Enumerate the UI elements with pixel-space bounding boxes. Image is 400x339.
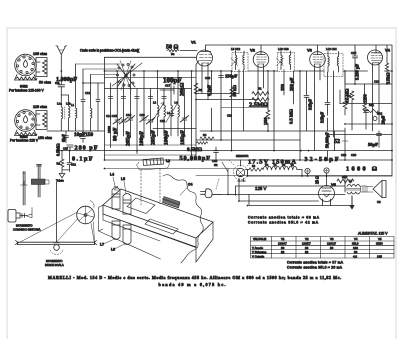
svg-text:V1: V1: [281, 237, 285, 241]
svg-text:0.5 MΩ: 0.5 MΩ: [289, 109, 294, 124]
left bracket: [99, 205, 161, 259]
resistor box 225/150 ohm: [36, 111, 47, 130]
svg-text:R4: R4: [203, 133, 207, 137]
svg-text:L6: L6: [111, 248, 115, 252]
svg-text:10μF150: 10μF150: [74, 132, 93, 138]
top rail: [206, 45, 393, 71]
main mid rails: [105, 57, 393, 160]
dashed guides down to chassis: [141, 169, 160, 205]
C4 component: [163, 197, 181, 209]
tuning section verticals: [105, 57, 192, 160]
svg-text:C4: C4: [188, 183, 192, 187]
svg-text:315pF: 315pF: [308, 98, 313, 110]
svg-text:C19: C19: [205, 76, 211, 80]
drum pulley: [77, 206, 95, 224]
IF transformer T1: [231, 47, 248, 72]
antenna: [56, 46, 67, 72]
svg-text:1000: 1000: [107, 126, 111, 133]
svg-text:banda 49 m a 6,075 kc.: banda 49 m a 6,075 kc.: [159, 282, 226, 287]
mid band vertical drops and rails: [202, 45, 392, 160]
svg-text:C22: C22: [341, 153, 347, 157]
dial cord drive: [16, 182, 97, 254]
vertical labels mid band: [205, 64, 391, 148]
svg-text:L5: L5: [121, 177, 125, 181]
svg-text:2.5MΩ: 2.5MΩ: [249, 102, 268, 109]
resistor box 165/50 ohm: [36, 58, 47, 77]
svg-text:VALVOLE: VALVOLE: [253, 237, 266, 241]
svg-text:0.1μF: 0.1μF: [207, 85, 212, 96]
resistor Rs 50ohm: [166, 44, 197, 56]
svg-text:L8: L8: [349, 179, 353, 183]
capacitor C11 1000pF: [55, 71, 65, 95]
svg-text:S2: S2: [214, 163, 218, 167]
tube V3: [307, 45, 325, 71]
svg-text:25 Ω: 25 Ω: [315, 175, 320, 184]
IF transformer T2: [277, 47, 295, 72]
svg-text:80: 80: [330, 246, 334, 250]
svg-text:REGISTR: REGISTR: [236, 154, 248, 158]
svg-text:80 pF: 80 pF: [112, 127, 118, 141]
svg-text:100pF: 100pF: [139, 130, 145, 146]
oscillator coils L2/L3: [153, 101, 180, 137]
small resistors vertical mid: [266, 91, 368, 130]
svg-text:V3: V3: [282, 163, 286, 167]
cords: [18, 212, 95, 243]
center hub: [54, 245, 60, 251]
svg-text:C16: C16: [374, 80, 380, 84]
svg-text:4,3: 4,3: [353, 254, 357, 258]
chassis top face: [103, 189, 213, 238]
resistor 2.5M: [249, 98, 269, 109]
mid rails horizontal: [62, 94, 392, 176]
cap 0.1uF: [67, 151, 93, 172]
svg-text:5.200 pF: 5.200 pF: [355, 64, 360, 80]
svg-text:L2: L2: [153, 101, 157, 105]
svg-text:50pF: 50pF: [368, 142, 378, 147]
svg-text:150 ohm: 150 ohm: [38, 136, 52, 140]
resistor R4: [200, 133, 214, 140]
svg-text:V4: V4: [354, 237, 358, 241]
svg-text:C15: C15: [112, 114, 118, 118]
svg-text:V3: V3: [307, 48, 313, 53]
ground under transformer: [350, 196, 354, 209]
svg-text:L7: L7: [100, 243, 104, 247]
svg-text:C13: C13: [63, 147, 68, 151]
tube V5 rectifier: [319, 177, 337, 206]
svg-text:V2: V2: [291, 163, 295, 167]
svg-text:COMANDO SINTONIA: COMANDO SINTONIA: [13, 228, 41, 232]
svg-text:2.5kΩ: 2.5kΩ: [386, 72, 391, 84]
svg-text:V5: V5: [378, 237, 382, 241]
svg-text:MOVIMENTO: MOVIMENTO: [46, 259, 63, 263]
chassis pictorial: [99, 158, 214, 263]
svg-text:225 ohm: 225 ohm: [33, 105, 47, 109]
torn outline: [163, 175, 203, 263]
svg-text:C19: C19: [140, 113, 146, 117]
svg-text:L4: L4: [110, 173, 114, 177]
svg-text:V Catodo: V Catodo: [252, 254, 264, 258]
svg-text:20μF: 20μF: [381, 115, 386, 125]
52 and 50pF labels: [334, 131, 382, 147]
svg-text:V2: V2: [250, 48, 256, 53]
valve table: [251, 237, 395, 259]
svg-text:0.5MΩ: 0.5MΩ: [187, 148, 202, 153]
svg-text:V3: V3: [330, 237, 334, 241]
tube V2: [250, 45, 269, 71]
svg-text:1000: 1000: [264, 117, 268, 125]
svg-text:C12: C12: [71, 163, 76, 167]
svg-text:L3: L3: [167, 111, 171, 115]
pilot lamp: [228, 154, 252, 180]
heater chain: [230, 160, 302, 201]
svg-text:Per tensione 125-160 V: Per tensione 125-160 V: [9, 89, 44, 93]
svg-text:C14: C14: [106, 114, 112, 118]
mains plug: [201, 169, 229, 198]
switch contact before lamp: [214, 162, 228, 172]
svg-text:65pF: 65pF: [62, 133, 66, 142]
tube socket pictorial 8464: [15, 110, 38, 136]
1600 ohm: [337, 166, 377, 184]
svg-text:1.000pF: 1.000pF: [56, 76, 77, 83]
svg-text:82: 82: [281, 250, 285, 254]
svg-text:L4: L4: [175, 101, 179, 105]
svg-text:Corrente anodica 35L6 ≈ 26 mA: Corrente anodica 35L6 ≈ 26 mA: [287, 265, 343, 269]
svg-text:V2: V2: [305, 237, 309, 241]
tube socket pictorial 6462: [15, 54, 38, 80]
svg-text:0.5MΩ: 0.5MΩ: [56, 143, 61, 156]
hanging cylinders below chassis: [112, 221, 120, 240]
svg-text:L5 C12: L5 C12: [231, 47, 240, 51]
L4 cylinder: [112, 188, 120, 210]
svg-text:L1a: L1a: [57, 102, 62, 106]
svg-text:V1: V1: [274, 163, 278, 167]
svg-text:Per tensione 220 V: Per tensione 220 V: [10, 138, 39, 142]
svg-text:R11: R11: [369, 103, 374, 107]
cap C13 280pF: [63, 145, 98, 152]
svg-text:C18: C18: [227, 114, 232, 118]
coil cluster x75-100: [71, 64, 100, 131]
tube V1: [191, 40, 213, 72]
svg-text:L12 C14: L12 C14: [326, 47, 337, 51]
svg-text:20kΩ: 20kΩ: [180, 82, 186, 96]
svg-text:MARELLI - Mod. 154 D - Medie e: MARELLI - Mod. 154 D - Medie e due corte…: [48, 275, 341, 280]
svg-text:U8: U8: [377, 200, 381, 204]
svg-text:100pF: 100pF: [164, 129, 170, 145]
svg-text:V4: V4: [385, 48, 391, 53]
padder capacitors row: [108, 97, 166, 99]
chassis front face: [103, 205, 196, 248]
svg-text:50,000pF: 50,000pF: [180, 155, 211, 162]
svg-text:V5: V5: [331, 182, 337, 187]
L5 cylinder: [123, 194, 131, 215]
svg-text:1250: 1250: [363, 93, 368, 103]
ground telaio: [56, 170, 70, 183]
svg-text:V4: V4: [265, 163, 269, 167]
svg-text:ALIMENTAZ. 125 V: ALIMENTAZ. 125 V: [358, 232, 388, 236]
tuning shaft mechanism: [21, 165, 50, 206]
100 pF big + 20k: [160, 77, 203, 97]
svg-text:C17: C17: [165, 84, 171, 88]
svg-text:82: 82: [305, 250, 309, 254]
small component labels row: [106, 111, 171, 123]
svg-text:R13: R13: [377, 112, 383, 116]
cap 65pF: [62, 131, 69, 143]
svg-text:Telaio: Telaio: [56, 179, 64, 183]
svg-text:R2: R2: [57, 162, 61, 166]
svg-text:125 V: 125 V: [255, 186, 267, 191]
svg-text:C12: C12: [85, 91, 91, 95]
svg-text:165 ohm: 165 ohm: [33, 52, 47, 56]
svg-text:Rs: Rs: [171, 52, 175, 56]
svg-text:150pF: 150pF: [225, 74, 237, 79]
0.5M vertical resistor R2: [56, 143, 64, 170]
svg-text:50 ohm: 50 ohm: [39, 81, 51, 85]
svg-text:C16: C16: [126, 113, 132, 117]
svg-text:285pF: 285pF: [151, 129, 157, 145]
svg-text:17.5V 150mA: 17.5V 150mA: [248, 159, 296, 166]
svg-text:MOVIMENTO: MOVIMENTO: [16, 224, 33, 228]
bottom right rails: [212, 160, 392, 206]
tube V4: [368, 45, 391, 71]
10uF150 electrolytic: [74, 131, 93, 142]
0.5M + 50000pF labels above chassis: [180, 142, 219, 163]
trimmer arrows over osc coils: [152, 101, 196, 129]
svg-text:L1: L1: [71, 103, 75, 107]
electrolytic caps 32-50uF: [305, 153, 357, 184]
variable capacitors (tuning gang): [113, 116, 189, 137]
svg-text:R1: R1: [258, 87, 262, 91]
speaker U8: [367, 181, 386, 205]
svg-text:250 pF: 250 pF: [289, 77, 294, 91]
svg-text:C15: C15: [351, 51, 357, 55]
left rails: [47, 64, 120, 151]
resistor R1 horizontal: [252, 87, 269, 96]
svg-text:265pF: 265pF: [126, 130, 132, 146]
left antenna coils L1: [57, 95, 71, 131]
bar: [18, 242, 95, 244]
svg-text:INDICE SCALA: INDICE SCALA: [45, 263, 64, 267]
svg-text:V1: V1: [191, 40, 197, 45]
svg-text:C21: C21: [160, 119, 166, 123]
band switch pictorial: [112, 61, 142, 91]
vertical value labels: [107, 126, 186, 146]
output transformer L8: [345, 179, 367, 194]
5MOhm resistor drop: [328, 131, 335, 160]
svg-text:125: 125: [377, 254, 382, 258]
svg-text:Corrente anodica totale ≈ 37 m: Corrente anodica totale ≈ 37 mA: [287, 261, 344, 265]
svg-text:Corrente anodica totale ≈ 68 m: Corrente anodica totale ≈ 68 mA: [248, 216, 320, 220]
svg-text:185pF: 185pF: [180, 129, 186, 145]
cutout on top: [127, 198, 155, 214]
svg-text:R4: R4: [347, 94, 351, 98]
L3 coil assembly: [143, 158, 164, 166]
svg-text:L10 C16: L10 C16: [278, 47, 289, 51]
svg-text:315pF: 315pF: [320, 111, 325, 123]
svg-text:35Z4: 35Z4: [376, 242, 383, 246]
IF transformer T3: [324, 47, 343, 77]
tuning knob: [8, 208, 32, 223]
svg-text:Onde corte in posizione-OC1-[o: Onde corte in posizione-OC1-[onda 41m](: [80, 49, 140, 53]
svg-text:150: 150: [280, 83, 285, 91]
right column rails: [328, 51, 393, 135]
svg-text:L3: L3: [166, 159, 170, 163]
svg-text:1600 Ω: 1600 Ω: [346, 166, 377, 173]
svg-text:Corrente anodica 35L6 ≈ 42 mA: Corrente anodica 35L6 ≈ 42 mA: [248, 220, 319, 224]
pointer wire from above: [56, 182, 58, 242]
svg-text:C23: C23: [351, 153, 357, 157]
